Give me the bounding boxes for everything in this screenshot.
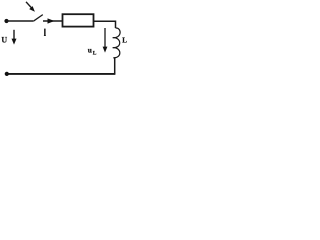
node A (top-left terminal dot) — [4, 19, 8, 23]
switch S blade — [33, 15, 43, 22]
resistor R (box) — [63, 14, 94, 26]
svg-text:u: u — [88, 46, 92, 55]
wire (top-left terminal to switch) — [7, 20, 34, 22]
label u_L — [88, 46, 97, 57]
svg-text:U: U — [1, 35, 7, 44]
voltage arrow U — [12, 30, 17, 45]
label i — [44, 29, 46, 36]
svg-text:L: L — [93, 51, 97, 57]
node B (bottom-left terminal dot) — [5, 72, 9, 76]
inductor L coil — [113, 28, 121, 58]
voltage arrow u_L — [103, 28, 108, 53]
wire (bottom return) — [7, 73, 116, 75]
switch actuation arrow — [26, 2, 35, 12]
svg-text:L: L — [122, 37, 127, 45]
wire (inductor bottom down) — [114, 58, 116, 74]
wire (resistor to top-right corner, down to inductor) — [94, 21, 116, 28]
current arrow i — [48, 18, 55, 23]
wire (switch to resistor) — [43, 20, 63, 22]
